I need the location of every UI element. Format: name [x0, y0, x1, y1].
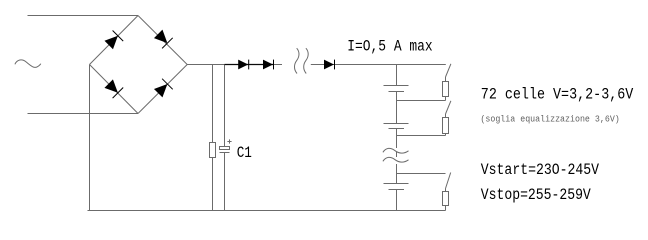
svg-text:C1: C1 [237, 144, 252, 162]
capacitor C1 branch wire lower [224, 153, 226, 211]
diode D1 (bridge top-left) [103, 30, 123, 50]
svg-text:Vstart=23O-245V: Vstart=23O-245V [481, 161, 600, 179]
switch S3 lead [445, 189, 447, 192]
battery column wire bottom [396, 190, 398, 211]
diode D3 (bridge bottom-left) [103, 78, 123, 98]
resistor R1 body [443, 82, 449, 97]
battery column wire cell1-cell2 [396, 92, 398, 124]
diode D7 (series after break) [324, 60, 335, 70]
svg-text:Vstop=255-259V: Vstop=255-259V [481, 186, 592, 204]
battery column break symbol [383, 148, 409, 153]
wire DC+ from break to switch column [311, 64, 446, 66]
bridge rectifier edge bottom-left [90, 65, 139, 114]
resistor branch wire upper [212, 65, 214, 143]
wire bottom rail [88, 210, 446, 212]
resistor R2 lead [445, 134, 447, 136]
diode D6 (series on DC+ line) [263, 60, 274, 70]
resistor R3 lead [445, 206, 447, 211]
diode D4 (bridge bottom-right) [153, 78, 173, 98]
battery cell 3 long plate [384, 183, 409, 185]
bridge rectifier edge top-right [138, 16, 187, 65]
battery column wire cell2-break [396, 129, 398, 149]
resistor R2 body [443, 118, 449, 134]
diode D2 (bridge top-right) [153, 29, 173, 49]
capacitor C1 top plate [220, 147, 230, 150]
AC source symbol [15, 60, 41, 67]
svg-text:I=O,5 A max: I=O,5 A max [347, 38, 432, 56]
bridge rectifier edge bottom-right [138, 65, 187, 114]
capacitor C1 bottom plate [220, 152, 230, 154]
bridge rectifier edge top-left [90, 16, 139, 65]
battery cell 1 short plate [389, 91, 405, 93]
wire tap 2 [397, 135, 446, 137]
capacitor C1 plus sign [227, 141, 231, 143]
resistor R3 body [443, 192, 449, 206]
resistor branch wire lower [212, 158, 214, 211]
svg-text:72 celle V=3,2-3,6V: 72 celle V=3,2-3,6V [481, 86, 634, 104]
battery cell 3 short plate [389, 189, 405, 191]
switch S2 blade [446, 101, 451, 114]
wire break symbol on DC+ line [295, 48, 300, 73]
switch S1 blade [446, 64, 451, 77]
capacitor C1 branch wire upper [224, 65, 226, 147]
battery cell 2 short plate [389, 128, 405, 130]
wire DC- vertical from bridge left vertex [89, 65, 91, 211]
wire AC bottom [28, 113, 139, 115]
resistor R1 lead [445, 97, 447, 101]
wire (dark lead segment through D5 D6) [225, 64, 274, 66]
battery column wire top [396, 65, 398, 86]
wire tap 1 [397, 100, 446, 102]
switch S2 lead [445, 114, 447, 118]
battery cell 1 long plate [384, 85, 409, 87]
wire tap 3 [397, 173, 446, 175]
diode D5 (series on DC+ line) [238, 60, 249, 70]
switch S1 lead [445, 77, 447, 82]
svg-text:(soglia equalizzazione 3,6V): (soglia equalizzazione 3,6V) [480, 114, 619, 124]
switch S3 blade [446, 173, 451, 189]
battery cell 2 long plate [384, 123, 409, 125]
resistor (bleed) body [210, 143, 216, 158]
wire AC top [28, 15, 139, 17]
wire DC+ from bridge to break [187, 64, 282, 66]
battery column wire break-cell3 [396, 164, 398, 184]
